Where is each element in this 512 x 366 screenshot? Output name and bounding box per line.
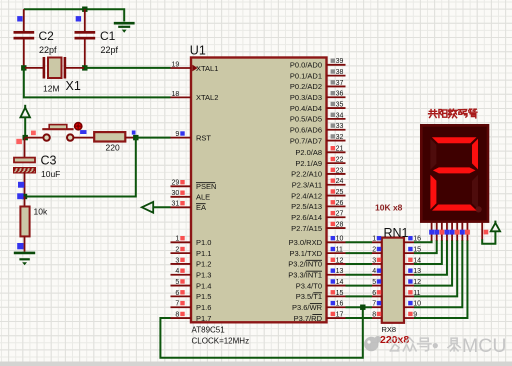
svg-text:25: 25 xyxy=(336,189,344,196)
pin 33 (P0.6/AD6) stub xyxy=(327,123,346,130)
pin label P0.1/AD1 xyxy=(290,71,322,80)
svg-text:33: 33 xyxy=(336,123,344,130)
svg-text:P0.1/AD1: P0.1/AD1 xyxy=(290,71,322,80)
pin label P0.0/AD0 xyxy=(290,61,322,70)
crystal X1 xyxy=(25,57,84,94)
wire RN1 pin 15 to display segment xyxy=(414,240,437,253)
display segment pin 1 stub xyxy=(431,222,433,241)
pin label P3.0/RXD xyxy=(289,238,323,247)
svg-text:P2.2/A10: P2.2/A10 xyxy=(291,170,322,179)
RN1 pin 8 stub xyxy=(372,311,382,318)
capacitor C3 xyxy=(14,138,61,197)
display pin state square 2 xyxy=(434,230,439,235)
probe square blue C1 top xyxy=(76,16,81,21)
wire P3.7 to RN1 pin 8 xyxy=(346,317,373,319)
pin 37 (P0.2/AD2) stub xyxy=(327,80,346,87)
RN1 pin 4 stub xyxy=(372,268,382,275)
pin 13 (P3.3/INT1) stub xyxy=(327,268,346,275)
svg-text:P3.6/WR: P3.6/WR xyxy=(292,303,323,312)
svg-text:15: 15 xyxy=(336,290,344,297)
pin 1 (P1.0) stub xyxy=(171,236,192,243)
svg-text:MCU: MCU xyxy=(462,335,506,357)
display segment pin 7 stub xyxy=(461,222,463,241)
probe square blue RST node xyxy=(132,131,136,135)
wire common pin to VCC xyxy=(482,231,495,243)
pin 14 (P3.4/T0) stub xyxy=(327,279,346,286)
RN1 pin 9 stub xyxy=(404,311,417,318)
resistor 220 xyxy=(94,132,136,152)
probe square blue button-right xyxy=(80,130,86,134)
svg-text:P2.6/A14: P2.6/A14 xyxy=(291,213,322,222)
pin label P0.4/AD4 xyxy=(290,104,322,113)
ground xyxy=(114,23,135,33)
display common-anode pin stub xyxy=(481,222,483,240)
RN1 pin 7 stub xyxy=(372,301,382,308)
node P3.6 wire junction xyxy=(360,305,365,310)
node C1 top junction xyxy=(82,7,87,12)
svg-text:P3.3/INT1: P3.3/INT1 xyxy=(288,271,322,280)
pin label P1.2 xyxy=(196,260,211,269)
svg-text:RX8: RX8 xyxy=(382,325,397,334)
svg-text:12: 12 xyxy=(336,257,344,264)
svg-text:P1.4: P1.4 xyxy=(196,281,211,290)
RN1 pin 16 stub xyxy=(404,236,421,243)
svg-text:38: 38 xyxy=(336,69,344,76)
wire XTAL1 net xyxy=(85,67,171,69)
wire junction to button xyxy=(25,137,43,139)
probe square blue C3 a xyxy=(18,182,24,188)
pin label P1.4 xyxy=(196,281,211,290)
pin 21 (P2.0/A8) stub xyxy=(327,146,346,153)
wire RN1 pin 14 to display segment xyxy=(414,240,442,264)
watermark logo xyxy=(364,336,381,351)
svg-text:14: 14 xyxy=(336,279,344,286)
svg-text:XTAL1: XTAL1 xyxy=(196,64,218,73)
RN1 pin 14 stub xyxy=(404,257,421,264)
wire RN1 pin 12 to display segment xyxy=(414,240,452,286)
wire P3.0 to RN1 pin 1 xyxy=(346,241,373,243)
svg-text:10k: 10k xyxy=(34,207,48,217)
svg-text:22pf: 22pf xyxy=(39,45,57,55)
svg-text:P0.4/AD4: P0.4/AD4 xyxy=(290,104,322,113)
pin 28 (P2.7/A15) stub xyxy=(327,221,346,228)
RN1 pin 11 stub xyxy=(404,290,421,297)
resistor 10k xyxy=(20,197,48,252)
capacitor C2 xyxy=(14,9,58,68)
pin 11 (P3.1/TXD) stub xyxy=(327,247,346,254)
pin 32 (P0.7/AD7) stub xyxy=(327,134,346,141)
svg-text:P1.0: P1.0 xyxy=(196,238,211,247)
wire P3.4 to RN1 pin 5 xyxy=(346,285,373,287)
display decimal point (unlit) xyxy=(476,206,482,212)
pin 39 (P0.0/AD0) stub xyxy=(327,58,346,65)
display pin state square 3 xyxy=(439,230,444,235)
svg-text:5: 5 xyxy=(175,279,179,286)
svg-text:8: 8 xyxy=(175,311,179,318)
display pin state square 7 xyxy=(460,230,465,235)
pin label P3.3/INT1 xyxy=(288,271,322,280)
svg-text:P3.7/RD: P3.7/RD xyxy=(294,314,323,323)
display segment e (lit) xyxy=(430,175,436,210)
pin label EA xyxy=(196,203,206,212)
svg-text:P3.5/T1: P3.5/T1 xyxy=(296,292,322,301)
svg-text:P2.5/A13: P2.5/A13 xyxy=(291,202,322,211)
pin label P3.1/TXD xyxy=(289,249,322,258)
svg-text:34: 34 xyxy=(336,112,344,119)
display segment g (lit) xyxy=(433,167,476,173)
pin 29 (PSEN) stub xyxy=(171,180,192,187)
node C3-10k junction xyxy=(22,194,27,199)
display segment f (unlit) xyxy=(430,139,436,170)
node XTAL2 junction xyxy=(21,65,26,70)
pin label P3.2/INT0 xyxy=(288,260,322,269)
svg-text:17: 17 xyxy=(336,311,344,318)
pin label P3.6/WR xyxy=(292,303,323,312)
svg-text:7: 7 xyxy=(372,301,376,308)
display segment pin 3 stub xyxy=(441,222,443,241)
wire RN1 pin 10 to display segment xyxy=(414,240,462,307)
pin label P1.7 xyxy=(196,314,211,323)
wire P3.1 to RN1 pin 2 xyxy=(346,252,373,254)
pin 16 (P3.6/WR) stub xyxy=(327,301,346,308)
svg-text:CLOCK=12MHz: CLOCK=12MHz xyxy=(192,337,250,346)
pin label PSEN xyxy=(196,182,216,191)
RN1 pin 3 stub xyxy=(372,257,382,264)
pin 18 (XTAL2) stub xyxy=(171,91,192,98)
RN1 pin 6 stub xyxy=(372,290,382,297)
pin label P2.0/A8 xyxy=(295,148,322,157)
svg-text:P0.0/AD0: P0.0/AD0 xyxy=(290,61,322,70)
svg-text:22: 22 xyxy=(336,157,344,164)
svg-text:3: 3 xyxy=(175,257,179,264)
RN1 pin 10 stub xyxy=(404,301,421,308)
pin 17 (P3.7/RD) stub xyxy=(327,311,346,318)
svg-text:28: 28 xyxy=(336,221,344,228)
node XTAL1 junction xyxy=(82,65,87,70)
svg-text:C2: C2 xyxy=(39,29,55,43)
pin label XTAL2 xyxy=(196,93,218,102)
display segment d (lit) xyxy=(432,205,477,211)
svg-text:22pf: 22pf xyxy=(101,45,119,55)
probe square pink below junction xyxy=(16,139,22,144)
svg-text:4: 4 xyxy=(372,268,376,275)
pin label P0.3/AD3 xyxy=(290,93,322,102)
wire RN1 pin 11 to display segment xyxy=(414,240,457,296)
RN1 pin 2 stub xyxy=(372,247,382,254)
pin 6 (P1.5) stub xyxy=(171,290,192,297)
pin label P0.7/AD7 xyxy=(290,136,322,145)
pin 4 (P1.3) stub xyxy=(171,268,192,275)
wire RN1 pin 13 to display segment xyxy=(414,240,447,275)
pin label RST xyxy=(196,133,211,142)
svg-text:16: 16 xyxy=(336,301,344,308)
svg-text:RN1: RN1 xyxy=(384,226,409,240)
wire P3.3 to RN1 pin 4 xyxy=(346,274,373,276)
RN1 pin 12 stub xyxy=(404,279,421,286)
svg-text:X1: X1 xyxy=(66,79,81,93)
pin 9 (RST) stub xyxy=(171,131,192,138)
svg-text:P0.5/AD5: P0.5/AD5 xyxy=(290,115,322,124)
pin 5 (P1.4) stub xyxy=(171,279,192,286)
display pin state square 5 xyxy=(450,230,455,235)
svg-text:1: 1 xyxy=(175,236,179,243)
svg-text:P1.7: P1.7 xyxy=(196,314,211,323)
svg-text:3: 3 xyxy=(372,257,376,264)
svg-text:39: 39 xyxy=(336,58,344,65)
svg-text:P2.3/A11: P2.3/A11 xyxy=(292,181,322,190)
watermark text xyxy=(389,335,506,357)
pin label P1.6 xyxy=(196,303,211,312)
label common-anode display (red CJK) xyxy=(429,109,477,118)
probe square red common pin xyxy=(484,230,489,235)
svg-text:23: 23 xyxy=(336,167,344,174)
pin 27 (P2.6/A14) stub xyxy=(327,211,346,218)
pin 3 (P1.2) stub xyxy=(171,257,192,264)
svg-text:10uF: 10uF xyxy=(41,169,60,179)
display segment pin 8 stub xyxy=(466,222,468,241)
pin label P0.2/AD2 xyxy=(290,82,322,91)
pin 8 (P1.7) stub xyxy=(171,311,192,318)
svg-text:6: 6 xyxy=(175,290,179,297)
svg-text:10K x8: 10K x8 xyxy=(375,203,403,213)
power VCC arrow (display) xyxy=(491,221,500,232)
pin XTAL1 clock arrow xyxy=(192,65,197,72)
svg-text:2: 2 xyxy=(175,247,179,254)
svg-text:C3: C3 xyxy=(41,154,57,168)
svg-text:37: 37 xyxy=(336,80,344,87)
pin 2 (P1.1) stub xyxy=(171,247,192,254)
svg-text:35: 35 xyxy=(336,101,344,108)
svg-text:P1.2: P1.2 xyxy=(196,260,211,269)
pin label P2.1/A9 xyxy=(295,159,322,168)
pin label P3.4/T0 xyxy=(296,281,322,290)
svg-text:RST: RST xyxy=(196,133,211,142)
svg-text:P1.1: P1.1 xyxy=(196,249,211,258)
display pin state square 4 xyxy=(445,230,450,235)
RN1 pin 15 stub xyxy=(404,247,421,254)
display segment pin 5 stub xyxy=(451,222,453,241)
capacitor C1 xyxy=(75,9,119,68)
pin label P2.6/A14 xyxy=(291,213,322,222)
RN1 pin 5 stub xyxy=(372,279,382,286)
svg-text:PSEN: PSEN xyxy=(196,182,216,191)
svg-text:C1: C1 xyxy=(100,29,116,43)
svg-text:U1: U1 xyxy=(190,43,206,57)
svg-text:12M: 12M xyxy=(43,84,60,94)
svg-text:P2.7/A15: P2.7/A15 xyxy=(291,224,322,233)
display segment pin 6 stub xyxy=(456,222,458,241)
svg-text:24: 24 xyxy=(336,178,344,185)
svg-text:18: 18 xyxy=(172,91,180,98)
input terminal arrow (EA) xyxy=(142,202,171,213)
wire P3.2 to RN1 pin 3 xyxy=(346,263,373,265)
7-segment display body xyxy=(421,125,488,221)
wire button to R220 xyxy=(73,137,94,139)
pin 30 (ALE) stub xyxy=(171,190,192,197)
display segment b (lit) xyxy=(472,139,478,170)
svg-text:P1.5: P1.5 xyxy=(196,292,211,301)
pin label P2.7/A15 xyxy=(291,224,322,233)
svg-text:26: 26 xyxy=(336,200,344,207)
pin label P3.5/T1 xyxy=(296,292,322,301)
wire GND net top xyxy=(24,9,124,21)
svg-text:5: 5 xyxy=(372,279,376,286)
pin 23 (P2.2/A10) stub xyxy=(327,167,346,174)
pin label P2.4/A12 xyxy=(291,191,322,200)
svg-text:2: 2 xyxy=(372,247,376,254)
node RST junction xyxy=(133,135,138,140)
probe square blue C3 b xyxy=(17,193,23,199)
RN1 pin 1 stub xyxy=(372,236,382,243)
svg-text:P2.0/A8: P2.0/A8 xyxy=(295,148,322,157)
svg-text:EA: EA xyxy=(196,203,206,212)
probe square blue 10k bottom xyxy=(17,243,23,249)
pin label ALE xyxy=(196,193,210,202)
display pin state square 1 xyxy=(429,230,434,235)
svg-text:P1.3: P1.3 xyxy=(196,271,211,280)
svg-text:AT89C51: AT89C51 xyxy=(192,326,226,335)
svg-text:220: 220 xyxy=(106,143,120,153)
power VCC arrow (reset) xyxy=(20,105,30,138)
display segment c (unlit) xyxy=(472,175,478,209)
svg-text:P0.3/AD3: P0.3/AD3 xyxy=(290,93,322,102)
probe square blue C2 top xyxy=(17,16,22,21)
pin 24 (P2.3/A11) stub xyxy=(327,178,346,185)
svg-text:P3.0/RXD: P3.0/RXD xyxy=(289,238,323,247)
wire R220 to RST pin xyxy=(136,137,171,139)
pin 19 (XTAL1) stub xyxy=(171,61,192,68)
svg-text:P1.6: P1.6 xyxy=(196,303,211,312)
svg-text:1: 1 xyxy=(372,236,376,243)
pin 35 (P0.4/AD4) stub xyxy=(327,101,346,108)
display segment pin 2 stub xyxy=(436,222,438,241)
resistor network RN1 body xyxy=(382,238,404,323)
pin 7 (P1.6) stub xyxy=(171,301,192,308)
wire RN1 pin 16 to display segment xyxy=(414,240,432,242)
svg-text:32: 32 xyxy=(336,134,344,141)
pin label P1.0 xyxy=(196,238,211,247)
svg-text:P2.4/A12: P2.4/A12 xyxy=(291,191,322,200)
svg-text:31: 31 xyxy=(172,201,180,208)
pin label P1.5 xyxy=(196,292,211,301)
op-amp U1 body (AT89C51) xyxy=(191,58,327,323)
svg-text:9: 9 xyxy=(175,131,179,138)
svg-text:36: 36 xyxy=(336,91,344,98)
svg-text:P3.1/TXD: P3.1/TXD xyxy=(289,249,322,258)
display segment pin 4 stub xyxy=(446,222,448,241)
svg-text:ALE: ALE xyxy=(196,193,210,202)
pin label P0.6/AD6 xyxy=(290,126,322,135)
svg-text:XTAL2: XTAL2 xyxy=(196,93,218,102)
pin label P1.3 xyxy=(196,271,211,280)
svg-text:11: 11 xyxy=(336,247,343,254)
pin label P0.5/AD5 xyxy=(290,115,322,124)
svg-text:29: 29 xyxy=(172,180,180,187)
pin 12 (P3.2/INT0) stub xyxy=(327,257,346,264)
svg-text:P0.6/AD6: P0.6/AD6 xyxy=(290,126,322,135)
svg-text:P0.7/AD7: P0.7/AD7 xyxy=(290,136,322,145)
pin label P1.1 xyxy=(196,249,211,258)
pin label P2.3/A11 xyxy=(292,181,322,190)
svg-text:6: 6 xyxy=(372,290,376,297)
svg-text:21: 21 xyxy=(336,146,344,153)
wire RN1 pin 9 to display segment xyxy=(414,240,467,318)
svg-text:30: 30 xyxy=(172,190,180,197)
wire P3.6 to RN1 pin 7 xyxy=(346,306,373,308)
push button xyxy=(42,125,73,141)
display pin state square 8 xyxy=(465,230,470,235)
svg-text:4: 4 xyxy=(175,268,179,275)
button actuator marker xyxy=(74,122,82,130)
svg-text:27: 27 xyxy=(336,211,344,218)
svg-text:19: 19 xyxy=(172,61,180,68)
svg-text:P3.4/T0: P3.4/T0 xyxy=(296,281,322,290)
pin label P2.2/A10 xyxy=(291,170,322,179)
pin label XTAL1 xyxy=(196,64,218,73)
pin label P2.5/A13 xyxy=(291,202,322,211)
pin 25 (P2.4/A12) stub xyxy=(327,189,346,196)
RN1 pin 13 stub xyxy=(404,268,421,275)
wire XTAL2 net xyxy=(24,68,171,98)
svg-text:P2.1/A9: P2.1/A9 xyxy=(295,159,322,168)
svg-text:13: 13 xyxy=(336,268,344,275)
svg-text:8: 8 xyxy=(372,311,376,318)
wire RST node down to C3 bottom xyxy=(25,138,136,197)
pin 15 (P3.5/T1) stub xyxy=(327,290,346,297)
pin 22 (P2.1/A9) stub xyxy=(327,157,346,164)
pin 36 (P0.3/AD3) stub xyxy=(327,91,346,98)
wire P3.5 to RN1 pin 6 xyxy=(346,295,373,297)
svg-text:7: 7 xyxy=(175,301,179,308)
pin 26 (P2.5/A13) stub xyxy=(327,200,346,207)
pin 31 (EA) stub xyxy=(171,201,192,208)
pin 38 (P0.1/AD1) stub xyxy=(327,69,346,76)
svg-text:P3.2/INT0: P3.2/INT0 xyxy=(288,260,322,269)
pin 34 (P0.5/AD5) stub xyxy=(327,112,346,119)
wire P1.7 to P3.6 net (bottom loop) xyxy=(160,307,362,358)
pin label P3.7/RD xyxy=(294,314,323,323)
node reset-top junction xyxy=(23,135,28,140)
pin 10 (P3.0/RXD) stub xyxy=(327,236,346,243)
ground (10k) xyxy=(14,253,35,265)
svg-text:P0.2/AD2: P0.2/AD2 xyxy=(290,82,322,91)
svg-text:10: 10 xyxy=(336,236,344,243)
display pin state square 6 xyxy=(455,230,460,235)
probe square pink button-left xyxy=(31,131,36,136)
display segment a (lit) xyxy=(432,137,477,143)
